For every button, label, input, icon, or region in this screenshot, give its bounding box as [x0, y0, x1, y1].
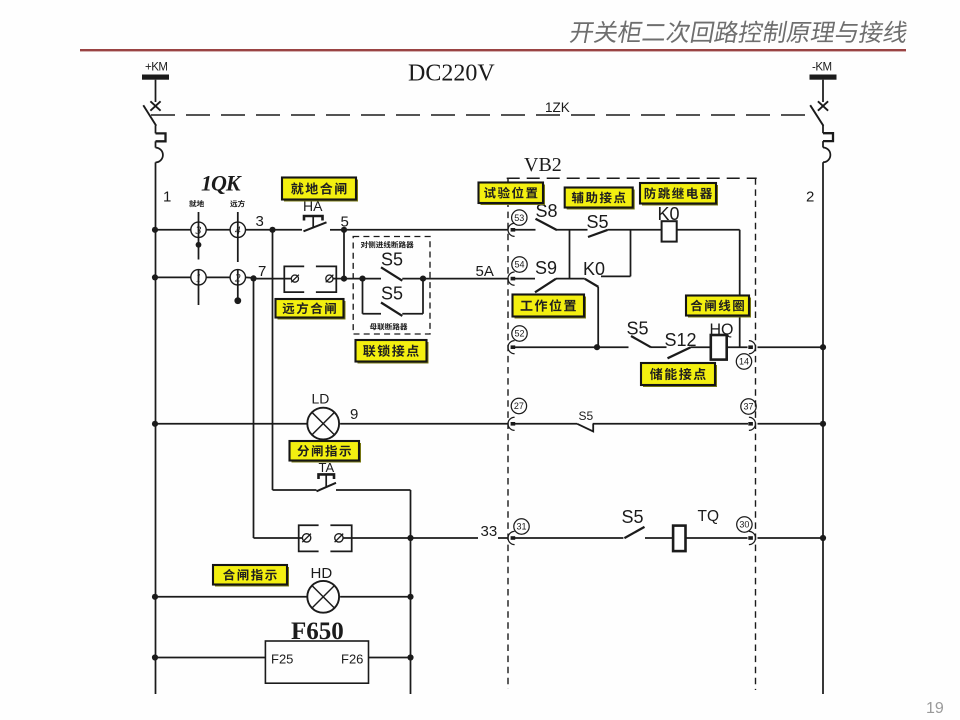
switch 1QK contact 2 [230, 270, 245, 301]
junction [152, 594, 158, 600]
svg-text:9: 9 [350, 406, 358, 423]
svg-text:+KM: +KM [145, 62, 167, 74]
wire 5A [423, 278, 508, 280]
switch 1QK contact 1 [191, 270, 206, 305]
svg-text:37: 37 [743, 402, 753, 412]
svg-text:54: 54 [514, 260, 524, 270]
contact S5 energy [627, 319, 652, 348]
terminal 27 [508, 398, 527, 430]
junction [152, 274, 158, 280]
wire row 3-5 [155, 229, 191, 231]
label 储能接点 [641, 363, 717, 387]
svg-text:S9: S9 [535, 258, 557, 278]
lamp LD trip indicator [307, 391, 339, 440]
label 防跳继电器 [640, 183, 718, 206]
svg-text:5A: 5A [476, 263, 494, 280]
wire [691, 346, 711, 348]
wire node7 drop [253, 279, 255, 538]
contact S5 auxiliary [587, 212, 609, 237]
svg-text:F25: F25 [271, 652, 293, 667]
wire [645, 537, 673, 539]
svg-text:1: 1 [196, 273, 202, 285]
label 分闸指示 [290, 441, 362, 463]
wire TA to drop [336, 489, 411, 491]
wire to right rail [758, 537, 824, 539]
svg-text:-KM: -KM [812, 62, 832, 74]
lamp HD closing indicator [307, 565, 339, 613]
svg-text:HD: HD [311, 565, 333, 582]
wire [512, 423, 577, 425]
terminal 37 [741, 399, 756, 431]
wire K0 contact upper branch [601, 275, 631, 277]
interlock contact group box [353, 237, 430, 335]
svg-text:LD: LD [312, 391, 330, 407]
closed position dot [196, 242, 202, 248]
node -KM [810, 62, 837, 80]
breaker 1ZK left pole [143, 80, 165, 163]
wire [155, 657, 265, 659]
contact K0 anti-pump [583, 259, 605, 287]
coil HQ closing [710, 322, 734, 360]
label 工作位置 [513, 295, 587, 319]
contact S5 upper [359, 250, 426, 282]
label 就地 [189, 200, 204, 207]
wire node5 down [343, 230, 345, 279]
svg-text:4: 4 [235, 225, 241, 237]
wire [340, 423, 508, 425]
svg-text:S5: S5 [587, 212, 609, 232]
wire [512, 346, 597, 348]
contact S9 [535, 258, 557, 292]
svg-text:VB2: VB2 [524, 154, 562, 176]
svg-text:S5: S5 [381, 250, 403, 270]
wire plug to node5 drop [333, 278, 344, 280]
cabinet VB2 dashed border top [507, 177, 757, 179]
label 就地合闸 [282, 178, 358, 202]
svg-text:TQ: TQ [698, 508, 720, 525]
coil TQ tripping [673, 508, 719, 551]
svg-text:1ZK: 1ZK [545, 100, 570, 115]
terminal 31 [508, 519, 529, 545]
wire [155, 596, 307, 598]
wire [343, 537, 411, 539]
label 试验位置 [479, 183, 546, 206]
pushbutton TA [317, 460, 337, 491]
contact S5 lower [363, 279, 424, 316]
terminal 54 [508, 257, 527, 285]
pushbutton HA [303, 198, 327, 231]
label 辅助接点 [565, 188, 635, 210]
svg-text:14: 14 [739, 357, 749, 367]
cabinet VB2 dashed border right [755, 178, 757, 690]
svg-text:31: 31 [516, 522, 526, 532]
label 对侧进线断路器 [361, 241, 414, 248]
svg-text:19: 19 [926, 700, 944, 717]
svg-text:1: 1 [163, 189, 171, 206]
wire right rail [822, 162, 824, 694]
label 合闸线圈 [686, 296, 751, 318]
wire row 7 [155, 276, 191, 278]
wire [593, 423, 748, 425]
svg-text:S5: S5 [579, 409, 594, 423]
switch 1QK contact 4 [230, 212, 245, 262]
wire [556, 278, 585, 280]
label 远方合闸 [276, 299, 346, 320]
wire K0 to corner [677, 229, 740, 231]
wire to interlock box [344, 278, 363, 280]
label 联锁接点 [356, 340, 429, 364]
breaker 1ZK right pole [810, 80, 833, 163]
wire node3 drop [272, 230, 274, 490]
closed position dot [234, 297, 241, 304]
svg-text:1QK: 1QK [201, 171, 242, 196]
mechanical linkage 1ZK dashed line [151, 114, 814, 116]
wire [512, 278, 535, 280]
terminal 53 [508, 210, 527, 236]
svg-text:7: 7 [258, 263, 266, 280]
terminal 30 [737, 517, 756, 545]
cabinet VB2 dashed border left [507, 178, 509, 689]
wire [608, 229, 662, 231]
plug connector (closing indication) [299, 525, 352, 551]
wire node5 to VB2 [344, 229, 508, 231]
plug connector (remote) [284, 266, 336, 292]
svg-text:3: 3 [195, 225, 202, 237]
junction [152, 227, 158, 233]
wire [512, 229, 536, 231]
svg-text:S5: S5 [381, 284, 403, 304]
svg-text:S5: S5 [627, 319, 649, 339]
wire [498, 537, 508, 539]
title 开关柜二次回路控制原理与接线 [569, 21, 908, 43]
node +KM [142, 62, 169, 80]
label 母联断路器 [370, 323, 408, 330]
wire [340, 596, 410, 598]
wire left rail [155, 162, 157, 694]
wire node7 to plug [254, 278, 292, 280]
svg-text:30: 30 [739, 520, 749, 530]
switch 1QK contact 3 [191, 212, 206, 260]
svg-text:53: 53 [514, 213, 524, 223]
wire S8-S9 link [569, 230, 571, 279]
relay F650 [265, 618, 368, 683]
wire to right rail [758, 423, 824, 425]
wire to right rail [758, 346, 824, 348]
svg-text:DC220V: DC220V [408, 61, 495, 87]
contact S8 [536, 201, 558, 230]
svg-text:33: 33 [481, 523, 498, 540]
terminal 14 [736, 341, 755, 370]
svg-text:2: 2 [235, 273, 241, 285]
contact S5 trip [622, 507, 645, 538]
svg-text:52: 52 [514, 329, 524, 339]
svg-text:27: 27 [514, 401, 524, 411]
label 合闸指示 [213, 565, 289, 587]
wire mid rail [410, 538, 412, 694]
junction [152, 654, 158, 660]
label 远方 [230, 200, 245, 207]
wire [155, 423, 307, 425]
contact S5 position [577, 409, 593, 431]
wire [330, 229, 344, 231]
wire [686, 537, 748, 539]
junction [152, 421, 158, 427]
svg-text:2: 2 [806, 189, 814, 206]
header rule line [80, 49, 906, 51]
wire [727, 346, 748, 348]
contact S12 [665, 330, 697, 358]
wire [651, 346, 667, 348]
wire K0 contact to row3 [597, 287, 599, 347]
svg-text:S5: S5 [622, 507, 644, 527]
wire [557, 229, 588, 231]
svg-text:3: 3 [256, 213, 264, 230]
terminal 52 [508, 326, 527, 354]
relay coil K0 [658, 204, 680, 242]
svg-text:F26: F26 [341, 652, 363, 667]
